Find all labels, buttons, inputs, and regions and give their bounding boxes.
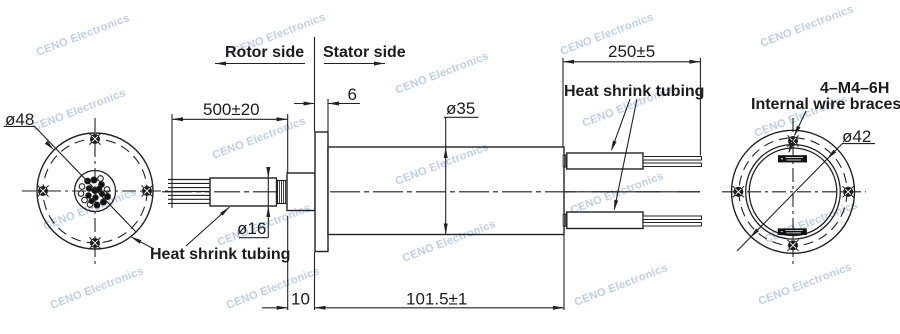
svg-text:CENO Electronics: CENO Electronics [763, 199, 860, 246]
svg-text:CENO Electronics: CENO Electronics [35, 12, 132, 59]
rotor/stator divider extension line [314, 37, 316, 132]
dimension 10 left extension line [287, 216, 289, 310]
dimension 500±20 right arrowhead [277, 117, 288, 121]
dimension 101.5±1 line [315, 307, 565, 309]
dimension 10 left arrowhead [277, 306, 288, 310]
dimension 6 right extension line [327, 99, 329, 132]
heat shrink tubing rotor leader arrowhead 1 [131, 237, 142, 244]
svg-text:10: 10 [291, 290, 310, 309]
svg-text:101.5±1: 101.5±1 [406, 290, 467, 309]
dimension 101.5 left arrowhead [315, 306, 326, 310]
dimension Ø16 bottom arrowhead [266, 206, 270, 217]
dimension 250±5 line [563, 61, 700, 63]
slip ring main body [328, 147, 564, 235]
stator end view: vertical centerline [792, 118, 794, 268]
dimension 10 approach line [262, 307, 288, 309]
centerline main horizontal [162, 191, 700, 193]
svg-text:CENO Electronics: CENO Electronics [31, 87, 128, 134]
stator end view: screw bottom [787, 240, 798, 251]
rotor end view: screw top [89, 133, 100, 144]
body centerline [330, 191, 700, 193]
svg-text:CENO Electronics: CENO Electronics [394, 50, 491, 97]
stator end view: screw top [787, 135, 798, 146]
svg-text:6: 6 [348, 85, 357, 104]
rotor end view: bolt circle (dashed) [43, 139, 147, 243]
rotor side arrow line [215, 63, 305, 65]
stator wire top 1 [643, 157, 702, 161]
internal wire braces leader segment 1 [795, 111, 806, 135]
heat shrink tubing stator leader 1 [612, 99, 630, 150]
rotor end view: outer circle [37, 133, 153, 249]
svg-text:Stator side: Stator side [323, 44, 406, 61]
stator side arrow line [324, 63, 385, 65]
rotor end view: screw left [37, 185, 48, 196]
heat shrink tubing stator leader 2 [614, 99, 637, 210]
dimension 500±20 line [172, 118, 288, 120]
knurled shaft section [278, 181, 288, 204]
heat shrink tubing rotor leader to end view [132, 237, 154, 249]
stator end view: bolt circle (dashed) [739, 138, 847, 246]
heat shrink tubing stator leader arrowhead 2 [614, 200, 618, 211]
svg-text:CENO Electronics: CENO Electronics [49, 265, 146, 312]
dimension 6 left arrow line [294, 103, 315, 105]
internal wire braces leader arrowhead 2 [789, 142, 794, 153]
dimension Ø35 bottom arrowhead [444, 224, 448, 235]
rotor side arrowhead [215, 62, 226, 66]
dimension 101.5 right arrowhead [553, 306, 564, 310]
stator end view: wire brace label bottom [778, 228, 807, 235]
dimension 6 right arrowhead [328, 102, 339, 106]
dimension Ø42 arrowhead outer [750, 228, 759, 237]
dimension 250±5 right arrowhead [689, 60, 700, 64]
stator end view: wire brace label top [778, 155, 807, 162]
stator wire top 2 [643, 163, 702, 167]
svg-text:CENO Electronics: CENO Electronics [569, 170, 666, 217]
flange extension line lower [314, 252, 316, 310]
dimension Ø35 underline [444, 116, 479, 118]
dimension Ø48 leader line [35, 126, 136, 232]
dimension 6 left arrowhead [304, 102, 315, 106]
rotor end view: wire bundle cluster [78, 176, 110, 208]
dimension 500±20 right extension line upper [287, 114, 289, 173]
stator wire bottom 2 [643, 223, 702, 227]
svg-text:CENO Electronics: CENO Electronics [573, 262, 670, 309]
mounting flange plate [315, 132, 328, 252]
dimension 6 right arrow line [328, 103, 360, 105]
rotor end view: screw bottom [89, 237, 100, 248]
dimension Ø42 arrowhead inner [827, 150, 836, 159]
heat shrink tubing stator leader arrowhead 1 [611, 141, 617, 152]
dimension Ø48 underline [4, 125, 35, 127]
stator wire bottom 1 [643, 216, 702, 220]
stator end view: inner circle outer [746, 145, 841, 240]
svg-text:500±20: 500±20 [203, 100, 260, 119]
svg-text:CENO Electronics: CENO Electronics [757, 261, 854, 308]
dimension Ø42 leader line [737, 144, 842, 251]
rotor end view: screw right [141, 185, 152, 196]
dimension Ø35 vertical line [445, 117, 447, 234]
rotor end view: inner circle [75, 171, 116, 212]
dimension Ø16 top arrowhead [266, 167, 270, 178]
svg-text:250±5: 250±5 [608, 42, 655, 61]
dimension Ø16 line [267, 172, 269, 238]
internal wire braces leader arrowhead 1 [794, 126, 801, 137]
rotor end view: vertical centerline [94, 118, 96, 265]
internal wire braces leader segment 2 [789, 137, 794, 152]
svg-text:CENO Electronics: CENO Electronics [211, 115, 308, 162]
rotor heat shrink tube [210, 178, 277, 206]
stator tube top strain relief nub [563, 155, 567, 167]
rotor lead wire bundle [168, 180, 210, 204]
svg-text:CENO Electronics: CENO Electronics [216, 202, 313, 249]
dimension 500±20 left extension line [171, 114, 173, 208]
dimension 250±5 left arrowhead [563, 60, 574, 64]
svg-text:ø35: ø35 [446, 99, 475, 118]
svg-text:CENO Electronics: CENO Electronics [759, 3, 856, 50]
stator end view: screw right [843, 186, 854, 197]
body right extension line lower [563, 235, 565, 310]
heat shrink tubing rotor leader arrowhead 2 [220, 207, 230, 216]
stator end view: horizontal centerline [722, 191, 866, 193]
heat shrink tubing rotor leader to tube [186, 207, 230, 246]
dimension 250±5 right extension line [699, 58, 701, 156]
stator tube bottom strain relief nub [563, 214, 567, 226]
dimension 500±20 left arrowhead [172, 117, 183, 121]
stator heat shrink tube bottom [567, 212, 643, 229]
dimension Ø42 underline [842, 143, 875, 145]
stator side arrowhead [374, 62, 385, 66]
rotor end view: horizontal centerline [22, 190, 170, 192]
dimension Ø16 shoulder line [239, 237, 268, 239]
stator end view: screw left [733, 186, 744, 197]
dimension Ø35 top arrowhead [444, 147, 448, 158]
svg-text:4–M4–6H: 4–M4–6H [820, 80, 889, 97]
stator heat shrink tube top [567, 153, 643, 169]
stator end view: inner circle inner [749, 148, 837, 236]
dimension Ø48 arrowhead [45, 141, 54, 150]
rotor tube centerline [214, 191, 306, 193]
rotor hub [287, 173, 315, 211]
stator end view: outer circle [732, 130, 855, 253]
dimension 250±5 left extension line [562, 58, 564, 147]
